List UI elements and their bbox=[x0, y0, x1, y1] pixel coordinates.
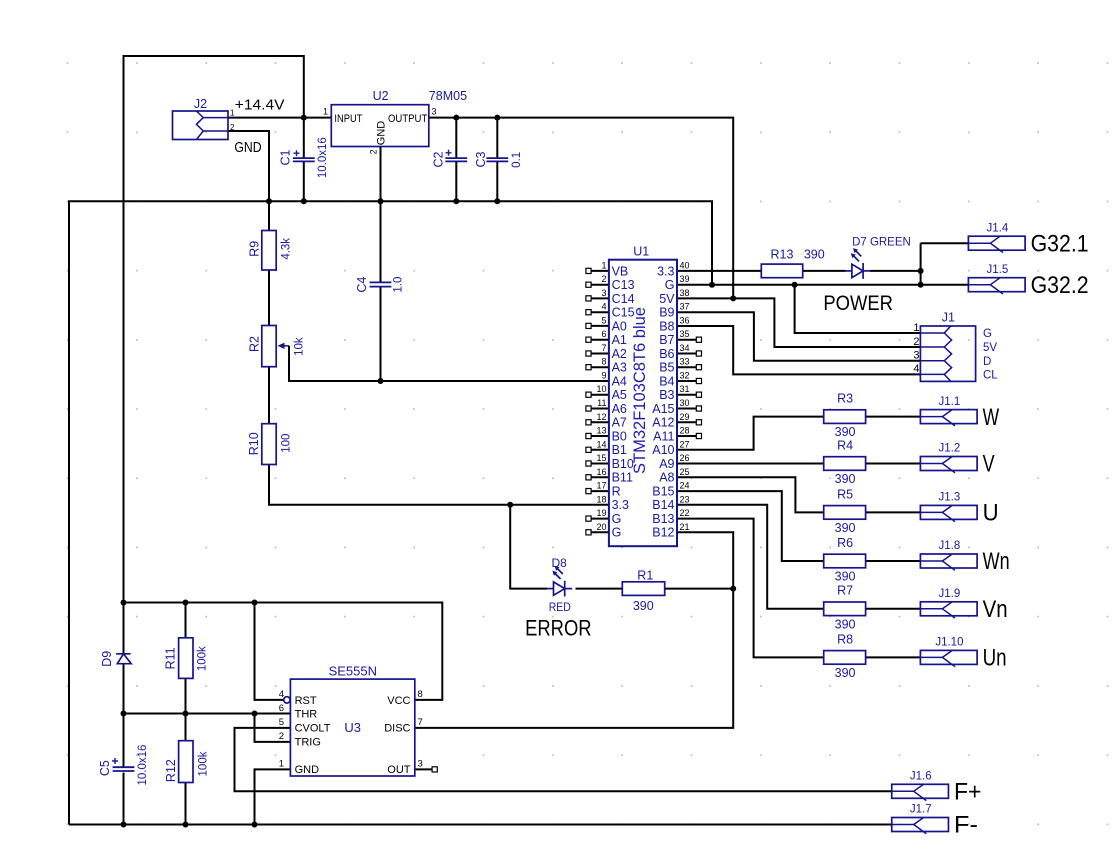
wire C2 top bbox=[455, 118, 457, 159]
svg-text:J1.9: J1.9 bbox=[939, 588, 961, 600]
svg-text:INPUT: INPUT bbox=[334, 113, 362, 125]
svg-text:B4: B4 bbox=[659, 374, 674, 388]
svg-text:A6: A6 bbox=[612, 402, 627, 416]
svg-text:3: 3 bbox=[913, 350, 919, 362]
svg-text:4: 4 bbox=[279, 689, 284, 700]
svg-text:GND: GND bbox=[234, 140, 261, 156]
wire C4 bottom to A4 net bbox=[380, 287, 382, 381]
connector J2 bbox=[173, 111, 229, 140]
svg-text:J2: J2 bbox=[194, 97, 207, 111]
svg-text:U1: U1 bbox=[633, 245, 649, 259]
svg-text:DISC: DISC bbox=[384, 723, 410, 735]
junction THR/R11/R12 bbox=[183, 711, 189, 717]
svg-text:25: 25 bbox=[680, 467, 690, 477]
svg-text:B12: B12 bbox=[652, 526, 674, 540]
svg-text:24: 24 bbox=[680, 481, 690, 491]
svg-text:R4: R4 bbox=[837, 438, 853, 452]
svg-text:J1.4: J1.4 bbox=[987, 222, 1009, 234]
svg-text:F+: F+ bbox=[954, 779, 982, 806]
svg-text:G: G bbox=[983, 328, 992, 340]
svg-text:3: 3 bbox=[601, 288, 606, 298]
svg-text:B6: B6 bbox=[659, 347, 674, 361]
svg-text:D8: D8 bbox=[552, 556, 568, 570]
svg-text:A1: A1 bbox=[612, 333, 627, 347]
svg-text:6: 6 bbox=[279, 703, 284, 714]
svg-text:6: 6 bbox=[601, 329, 606, 339]
wire C3 bottom bbox=[496, 161, 498, 201]
wire THR rail bbox=[124, 713, 291, 715]
svg-text:R3: R3 bbox=[837, 392, 853, 406]
svg-text:2: 2 bbox=[369, 149, 379, 154]
svg-text:B7: B7 bbox=[659, 333, 674, 347]
svg-text:B1: B1 bbox=[612, 443, 627, 457]
svg-text:C1: C1 bbox=[278, 149, 292, 165]
junction GND/U3 bbox=[252, 822, 258, 828]
svg-text:D9: D9 bbox=[100, 651, 114, 667]
wire R10 bottom to U1 pin18 3.3 bbox=[269, 465, 609, 505]
svg-text:3: 3 bbox=[418, 759, 423, 770]
resistor R8 bbox=[824, 651, 866, 665]
wire J2 pin2 GND down to rail and R9 top bbox=[228, 131, 269, 231]
svg-text:4: 4 bbox=[913, 363, 919, 375]
svg-text:100k: 100k bbox=[197, 646, 209, 671]
svg-text:CVOLT: CVOLT bbox=[295, 723, 331, 735]
wire R13 to D7 anode bbox=[803, 270, 846, 272]
svg-text:VCC: VCC bbox=[387, 695, 410, 707]
svg-text:J1: J1 bbox=[942, 311, 955, 325]
svg-text:30: 30 bbox=[680, 398, 690, 408]
wire 5V to J1 pin2 bbox=[677, 298, 920, 347]
junction VCC/RST bbox=[252, 600, 258, 606]
junction C4/A4 bbox=[378, 378, 384, 384]
junction 5V/C2 bbox=[453, 115, 459, 121]
svg-text:B9: B9 bbox=[659, 306, 674, 320]
svg-text:STM32F103C8T6 blue: STM32F103C8T6 blue bbox=[631, 307, 649, 474]
junction +14.4V/C1 bbox=[301, 115, 307, 121]
svg-text:VB: VB bbox=[612, 264, 629, 278]
wire U1 pin24 B15 to R6 bbox=[677, 491, 824, 561]
svg-text:J1.3: J1.3 bbox=[939, 492, 961, 504]
svg-text:R8: R8 bbox=[837, 632, 853, 646]
svg-text:A15: A15 bbox=[652, 402, 674, 416]
svg-text:G32.2: G32.2 bbox=[1031, 272, 1089, 299]
svg-text:J1.10: J1.10 bbox=[935, 637, 963, 649]
svg-text:2: 2 bbox=[279, 731, 284, 742]
svg-text:3: 3 bbox=[432, 107, 437, 117]
svg-text:J1.6: J1.6 bbox=[910, 771, 932, 783]
svg-text:1: 1 bbox=[601, 260, 606, 270]
svg-text:G32.1: G32.1 bbox=[1031, 230, 1089, 257]
wire R7 to J1.9 bbox=[866, 608, 921, 610]
resistor R7 bbox=[824, 602, 866, 616]
resistor R5 bbox=[824, 506, 866, 520]
junction GND/U2 pin2 bbox=[378, 198, 384, 204]
svg-text:36: 36 bbox=[680, 315, 690, 325]
wire U1 pin26 A9 to R4 bbox=[677, 463, 824, 465]
U1 right pin stubs bbox=[677, 337, 702, 439]
wire bottom GND rail to J1.7 F- bbox=[69, 824, 892, 826]
resistor R1 bbox=[622, 582, 664, 596]
svg-text:OUT: OUT bbox=[387, 764, 411, 776]
junction G to J1 pin1 bbox=[792, 282, 798, 288]
svg-text:Un: Un bbox=[983, 645, 1007, 672]
svg-text:37: 37 bbox=[680, 302, 690, 312]
svg-text:15: 15 bbox=[596, 453, 606, 463]
diode D9 bbox=[116, 654, 131, 664]
svg-text:22: 22 bbox=[680, 508, 690, 518]
LED D8 bbox=[547, 566, 572, 597]
svg-text:390: 390 bbox=[633, 599, 654, 613]
svg-text:26: 26 bbox=[680, 453, 690, 463]
capacitor C1 bbox=[293, 158, 315, 161]
junction 5V at pin38 bbox=[730, 295, 736, 301]
wire U3 OUT stub bbox=[415, 768, 432, 770]
wire G to J1 pin1 bbox=[795, 285, 921, 333]
resistor R13 bbox=[761, 264, 802, 278]
svg-text:2: 2 bbox=[913, 336, 919, 348]
svg-text:RED: RED bbox=[549, 600, 571, 614]
svg-text:C4: C4 bbox=[355, 277, 369, 293]
svg-text:RST: RST bbox=[295, 695, 317, 707]
wire R12 bottom to GND rail bbox=[185, 783, 187, 825]
svg-text:R10: R10 bbox=[247, 432, 261, 455]
C2 plus sign bbox=[446, 150, 452, 156]
connector J1.8 Wn bbox=[920, 554, 977, 568]
svg-text:A0: A0 bbox=[612, 319, 627, 333]
svg-text:5: 5 bbox=[601, 315, 606, 325]
wire +14.4V rail from J2 area down left side to D9 cathode and over to C1/U2 input bbox=[124, 56, 304, 654]
svg-text:23: 23 bbox=[680, 494, 690, 504]
svg-text:U2: U2 bbox=[373, 89, 389, 103]
junction GND/C1 bbox=[301, 198, 307, 204]
junction 3.3/D8 branch bbox=[507, 502, 513, 508]
svg-text:3.3: 3.3 bbox=[612, 498, 629, 512]
svg-text:13: 13 bbox=[596, 426, 606, 436]
timer U3 SE555N bbox=[284, 679, 415, 776]
svg-text:A10: A10 bbox=[652, 443, 674, 457]
svg-text:35: 35 bbox=[680, 329, 690, 339]
capacitor C5 bbox=[113, 767, 135, 771]
svg-text:10k: 10k bbox=[294, 337, 306, 356]
connector J1.4 G32.1 bbox=[968, 236, 1025, 250]
svg-text:J1.8: J1.8 bbox=[939, 540, 961, 552]
junction GND/C3 bbox=[494, 198, 500, 204]
svg-text:8: 8 bbox=[418, 689, 423, 700]
junction THR/TRIG bbox=[252, 711, 258, 717]
svg-text:B3: B3 bbox=[659, 388, 674, 402]
svg-text:R1: R1 bbox=[637, 569, 653, 583]
svg-text:100: 100 bbox=[280, 434, 292, 453]
svg-text:390: 390 bbox=[835, 617, 856, 631]
wire R4 to J1.2 bbox=[866, 463, 921, 465]
svg-text:B13: B13 bbox=[652, 512, 674, 526]
junction GND/R12 bbox=[183, 822, 189, 828]
microcontroller U1 STM32F103C8T6 bbox=[609, 260, 677, 547]
svg-text:F-: F- bbox=[954, 812, 978, 839]
wire C2 bottom bbox=[455, 161, 457, 201]
potentiometer R2 bbox=[262, 326, 289, 367]
wire D9 anode down to C5 bbox=[123, 664, 125, 768]
svg-text:B11: B11 bbox=[612, 471, 633, 485]
svg-text:1: 1 bbox=[279, 759, 284, 770]
svg-text:R12: R12 bbox=[164, 759, 178, 782]
wire R3 to J1.1 bbox=[866, 416, 921, 418]
connector J1.6 F+ bbox=[892, 784, 949, 798]
junction VCC rail left bbox=[121, 600, 127, 606]
junction D7 cathode node bbox=[918, 268, 924, 274]
svg-text:SE555N: SE555N bbox=[329, 664, 377, 678]
svg-text:29: 29 bbox=[680, 412, 690, 422]
connector J1 bbox=[920, 326, 975, 381]
junction GND/C5 bbox=[121, 822, 127, 828]
svg-text:J1.1: J1.1 bbox=[939, 396, 961, 408]
wire U1 pin25 A8 to R5 bbox=[677, 477, 824, 512]
svg-text:21: 21 bbox=[680, 522, 690, 532]
svg-text:40: 40 bbox=[680, 260, 690, 270]
wire VCC rail to U3 VCC pin8 bbox=[124, 603, 443, 700]
svg-text:2: 2 bbox=[601, 274, 606, 284]
svg-text:9: 9 bbox=[601, 371, 606, 381]
svg-text:D7 GREEN: D7 GREEN bbox=[852, 234, 911, 248]
wire C5 bottom to GND rail bbox=[123, 773, 125, 825]
svg-text:A5: A5 bbox=[612, 388, 627, 402]
wire U1 pin36 B8 to J1 pin4 CL bbox=[677, 326, 920, 374]
svg-text:10: 10 bbox=[596, 384, 606, 394]
svg-text:R6: R6 bbox=[837, 536, 853, 550]
svg-text:B0: B0 bbox=[612, 429, 627, 443]
wire U3 GND pin1 to GND rail bbox=[255, 769, 291, 824]
svg-text:C3: C3 bbox=[474, 151, 488, 167]
junction GND/C2 bbox=[453, 198, 459, 204]
wire to J1.5 bbox=[921, 284, 969, 286]
svg-text:A11: A11 bbox=[653, 429, 674, 443]
wire D7 cathode to G node bbox=[870, 270, 921, 272]
junction 5V/C3 bbox=[494, 115, 500, 121]
svg-text:Vn: Vn bbox=[983, 596, 1008, 623]
resistor R3 bbox=[824, 410, 866, 424]
svg-text:10.0x16: 10.0x16 bbox=[137, 745, 149, 786]
svg-text:A8: A8 bbox=[659, 471, 674, 485]
svg-text:A12: A12 bbox=[652, 416, 674, 430]
svg-text:390: 390 bbox=[835, 521, 856, 535]
U3 pin numbers bbox=[279, 689, 423, 770]
svg-text:GND: GND bbox=[376, 121, 388, 146]
svg-text:7: 7 bbox=[418, 717, 423, 728]
wire U1 pin39 G to J1.5 node bbox=[677, 284, 921, 286]
svg-text:7: 7 bbox=[601, 343, 606, 353]
junction G at pin39 bbox=[709, 282, 715, 288]
svg-text:2: 2 bbox=[230, 123, 235, 132]
svg-text:TRIG: TRIG bbox=[295, 737, 321, 749]
svg-text:THR: THR bbox=[295, 708, 318, 720]
svg-text:Wn: Wn bbox=[983, 548, 1010, 575]
svg-text:POWER: POWER bbox=[823, 291, 893, 315]
wire U1 pin37 B9 to J1 pin3 D bbox=[677, 312, 920, 361]
capacitor C2 bbox=[445, 158, 467, 161]
svg-text:A3: A3 bbox=[612, 361, 627, 375]
svg-text:W: W bbox=[983, 404, 1000, 431]
wire R2 wiper to U1 pin9 A4 bbox=[289, 346, 609, 381]
svg-text:8: 8 bbox=[601, 357, 606, 367]
svg-text:16: 16 bbox=[596, 467, 606, 477]
J1 pin names G 5V D CL bbox=[983, 328, 998, 381]
svg-text:R5: R5 bbox=[837, 487, 853, 501]
svg-text:J1.7: J1.7 bbox=[910, 804, 932, 816]
svg-text:R11: R11 bbox=[163, 647, 177, 669]
svg-text:14: 14 bbox=[596, 439, 606, 449]
svg-text:100k: 100k bbox=[198, 751, 210, 776]
svg-text:A4: A4 bbox=[612, 374, 627, 388]
svg-text:19: 19 bbox=[596, 508, 606, 518]
svg-text:CL: CL bbox=[983, 370, 998, 382]
svg-text:4.3k: 4.3k bbox=[280, 238, 292, 260]
wire C3 top bbox=[496, 118, 498, 159]
C1 plus sign bbox=[294, 150, 300, 156]
wire R11 bottom to R12 top bbox=[185, 678, 187, 740]
svg-text:11: 11 bbox=[597, 398, 606, 408]
wire 3.3 branch down to D8 anode bbox=[510, 505, 547, 589]
connector J1.9 Vn bbox=[920, 602, 977, 616]
svg-text:U: U bbox=[983, 500, 999, 527]
wire U1 pin23 B14 to R7 bbox=[677, 505, 824, 609]
svg-text:B15: B15 bbox=[652, 485, 674, 499]
svg-text:C13: C13 bbox=[612, 278, 635, 292]
svg-text:+14.4V: +14.4V bbox=[235, 98, 285, 114]
resistor R9 bbox=[262, 231, 276, 271]
LED D7 bbox=[845, 248, 870, 279]
svg-text:B14: B14 bbox=[652, 498, 674, 512]
svg-text:B8: B8 bbox=[659, 319, 674, 333]
svg-text:ERROR: ERROR bbox=[525, 616, 592, 641]
junction GND/J2.2 bbox=[266, 198, 272, 204]
svg-text:V: V bbox=[983, 451, 995, 478]
svg-text:1.0: 1.0 bbox=[393, 277, 405, 293]
svg-text:5: 5 bbox=[279, 717, 284, 728]
U1 pin names and numbers bbox=[596, 260, 689, 539]
wire GND rail: left frame, top rail to U1 pin39 G bbox=[69, 201, 712, 824]
svg-text:G: G bbox=[612, 526, 622, 540]
svg-text:28: 28 bbox=[680, 426, 690, 436]
svg-text:B5: B5 bbox=[659, 361, 674, 375]
svg-text:78M05: 78M05 bbox=[429, 89, 467, 103]
svg-text:C15: C15 bbox=[612, 306, 635, 320]
svg-text:390: 390 bbox=[804, 248, 825, 262]
U3 pin names bbox=[295, 695, 411, 776]
svg-text:R7: R7 bbox=[837, 584, 853, 598]
svg-text:U3: U3 bbox=[344, 720, 361, 735]
wire J2 pin1 to U2 INPUT bbox=[228, 117, 331, 119]
svg-text:12: 12 bbox=[596, 412, 606, 422]
junction VCC/R11 bbox=[183, 600, 189, 606]
svg-text:B10: B10 bbox=[612, 457, 634, 471]
wire R8 to J1.10 bbox=[866, 656, 921, 658]
wire U3 CVOLT to J1.6 F+ bbox=[235, 728, 892, 791]
wire R5 to J1.3 bbox=[866, 511, 921, 513]
junction THR rail/D9 bbox=[121, 711, 127, 717]
svg-text:G: G bbox=[612, 512, 622, 526]
svg-text:R13: R13 bbox=[771, 248, 794, 262]
svg-text:D: D bbox=[983, 356, 991, 368]
svg-text:5V: 5V bbox=[983, 342, 997, 354]
connector J1.1 W bbox=[920, 410, 977, 424]
svg-text:18: 18 bbox=[596, 494, 606, 504]
svg-text:33: 33 bbox=[680, 357, 690, 367]
svg-text:A2: A2 bbox=[612, 347, 627, 361]
svg-text:4: 4 bbox=[601, 302, 606, 312]
wire G node tie J1.4/J1.5 bbox=[920, 243, 922, 285]
wire R1 to B12/DISC node bbox=[665, 588, 734, 590]
connector J1.3 U bbox=[920, 505, 977, 519]
resistor R6 bbox=[824, 554, 866, 568]
wire to J1.4 bbox=[921, 242, 969, 244]
wire U2 OUTPUT 5V rail to U1 pin38 bbox=[429, 118, 733, 299]
resistor R4 bbox=[824, 457, 866, 471]
svg-text:32: 32 bbox=[680, 371, 690, 381]
wire THR to TRIG tie bbox=[255, 714, 291, 742]
svg-text:17: 17 bbox=[596, 481, 606, 491]
regulator U2 78M05 bbox=[331, 105, 429, 147]
resistor R10 bbox=[262, 424, 276, 465]
svg-text:34: 34 bbox=[680, 343, 690, 353]
wire R6 to J1.8 bbox=[866, 560, 921, 562]
svg-text:R: R bbox=[612, 485, 621, 499]
svg-text:10.0x16: 10.0x16 bbox=[317, 137, 329, 178]
svg-text:27: 27 bbox=[680, 439, 690, 449]
svg-text:0.1: 0.1 bbox=[511, 152, 523, 168]
svg-text:GND: GND bbox=[295, 764, 320, 776]
svg-text:R9: R9 bbox=[247, 241, 261, 257]
wire U2 GND pin2 down through rail to C4 top bbox=[380, 147, 382, 283]
wire U1 pin40 3.3 to R13 bbox=[677, 270, 761, 272]
svg-text:390: 390 bbox=[835, 472, 856, 486]
svg-text:C2: C2 bbox=[431, 151, 445, 167]
wire U1 pin27 A10 to R3 bbox=[677, 417, 824, 450]
connector J1.10 Un bbox=[920, 650, 977, 664]
svg-text:390: 390 bbox=[835, 570, 856, 584]
junction R1/B12/DISC bbox=[730, 586, 736, 592]
wire U1 pin21 B12 down to U3 DISC bbox=[415, 532, 733, 728]
svg-text:31: 31 bbox=[680, 384, 690, 394]
svg-text:J1.5: J1.5 bbox=[987, 264, 1009, 276]
svg-text:J1.2: J1.2 bbox=[939, 443, 961, 455]
connector J1.5 G32.2 bbox=[968, 278, 1025, 292]
capacitor C4 bbox=[370, 282, 392, 286]
junction G to J1.5 bbox=[918, 282, 924, 288]
svg-text:390: 390 bbox=[835, 666, 856, 680]
svg-text:1: 1 bbox=[323, 107, 328, 117]
wire VCC rail to U3 RST pin4 bbox=[255, 603, 284, 700]
U1 left pin stubs bbox=[586, 268, 609, 535]
J1 pin numbers bbox=[913, 322, 919, 375]
svg-text:R2: R2 bbox=[247, 336, 261, 352]
svg-text:5V: 5V bbox=[659, 292, 675, 306]
svg-text:C5: C5 bbox=[98, 760, 112, 776]
wire U1 pin22 B13 to R8 bbox=[677, 519, 824, 658]
resistor R12 bbox=[179, 741, 193, 783]
wire rail to R11 top bbox=[185, 603, 187, 638]
svg-text:3.3: 3.3 bbox=[657, 264, 674, 278]
svg-text:A9: A9 bbox=[659, 457, 674, 471]
svg-text:38: 38 bbox=[680, 288, 690, 298]
svg-text:G: G bbox=[665, 278, 675, 292]
U3 OUT stub bbox=[432, 767, 437, 772]
svg-text:A7: A7 bbox=[612, 416, 627, 430]
C5 plus sign bbox=[112, 758, 118, 764]
connector J1.2 V bbox=[920, 457, 977, 471]
wire D8 cathode to R1 bbox=[576, 588, 623, 590]
svg-text:390: 390 bbox=[835, 425, 856, 439]
svg-text:20: 20 bbox=[596, 522, 606, 532]
